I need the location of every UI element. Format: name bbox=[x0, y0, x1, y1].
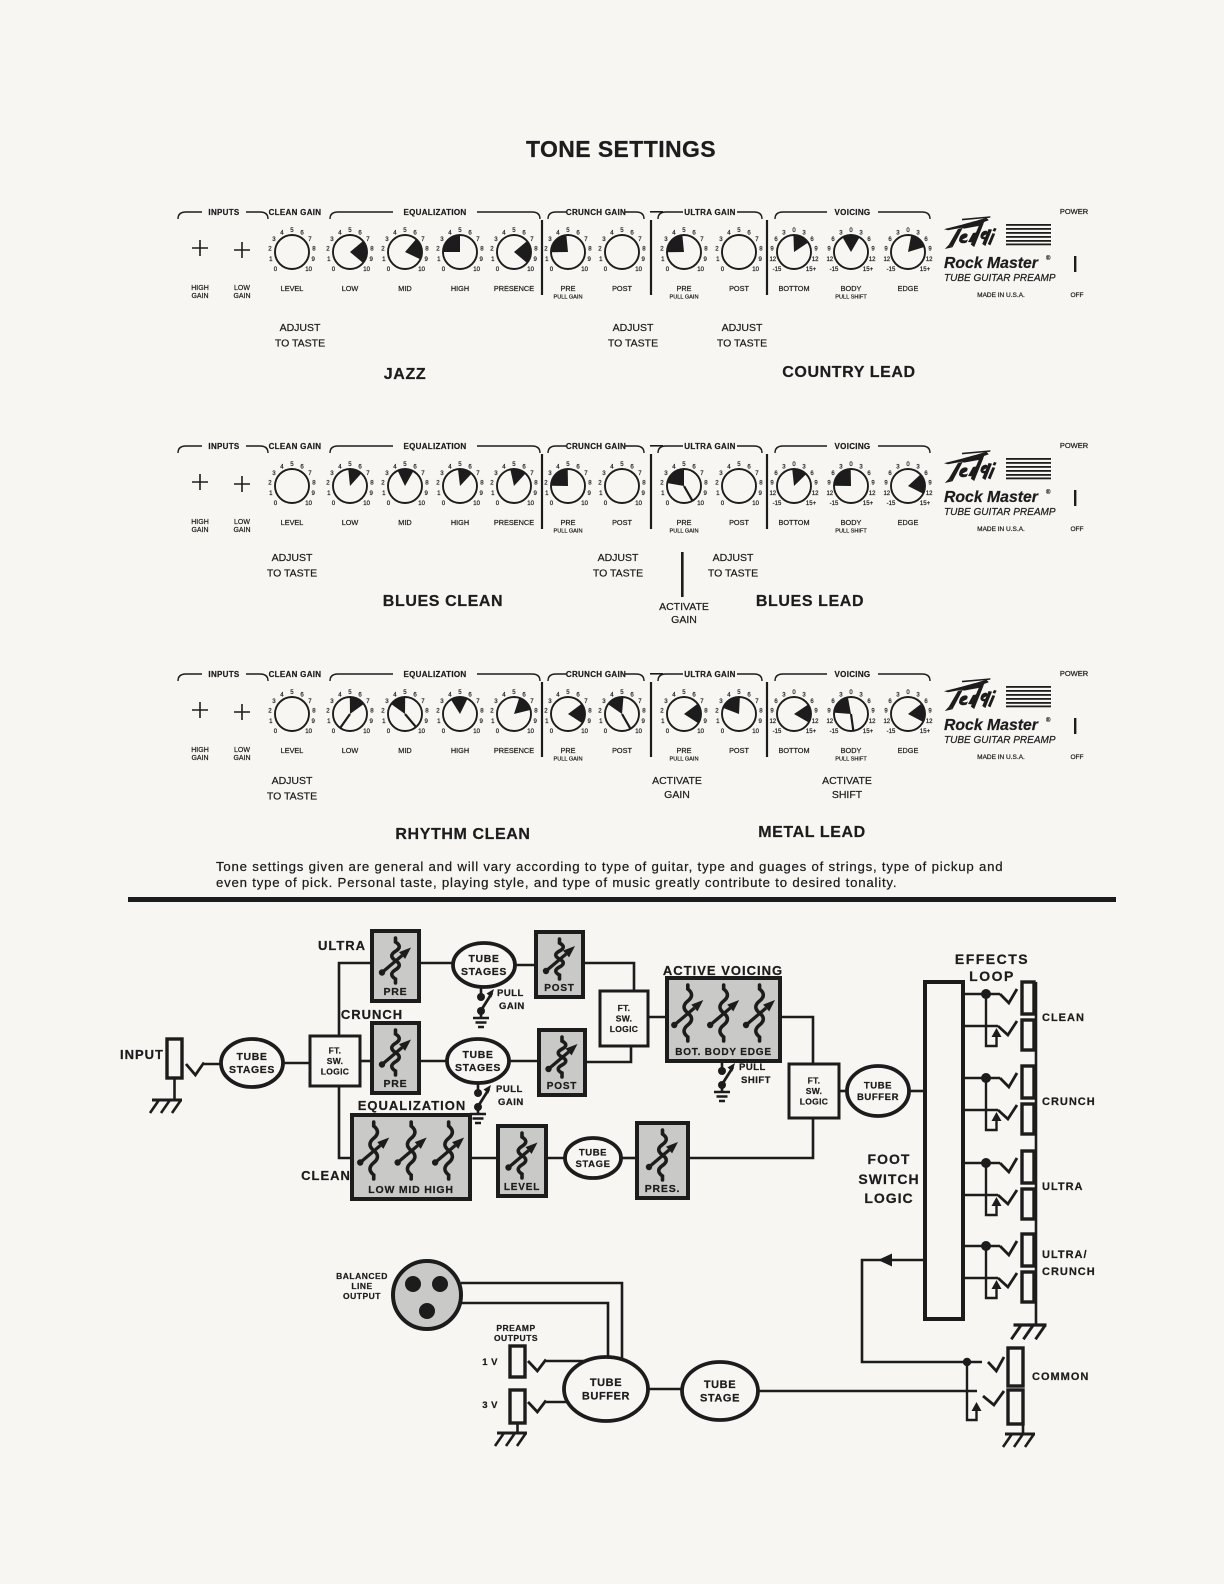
svg-text:PULL SHIFT: PULL SHIFT bbox=[835, 529, 867, 535]
section label CLEAN GAIN (BLUES CLEAN / BLUES LEAD) bbox=[269, 442, 322, 451]
wire ft sw logic 2 to tube buffer bbox=[839, 1090, 848, 1093]
knob BODY (RHYTHM CLEAN / METAL LEAD) bbox=[826, 690, 876, 735]
svg-text:4: 4 bbox=[393, 229, 397, 236]
svg-text:12: 12 bbox=[769, 491, 776, 497]
svg-text:CRUNCH GAIN: CRUNCH GAIN bbox=[566, 208, 626, 217]
svg-text:BOTTOM: BOTTOM bbox=[778, 746, 809, 755]
svg-text:PRE: PRE bbox=[384, 986, 408, 998]
note ADJUST TO TASTE (crunch, JAZZ) bbox=[608, 322, 658, 350]
knob LEVEL (JAZZ / COUNTRY LEAD) bbox=[268, 227, 316, 273]
svg-text:STAGE: STAGE bbox=[700, 1393, 740, 1405]
label MID (RHYTHM CLEAN / METAL LEAD) bbox=[398, 746, 411, 755]
svg-text:12: 12 bbox=[826, 719, 833, 725]
svg-text:15+: 15+ bbox=[920, 267, 931, 273]
input jack LOW GAIN (JAZZ / COUNTRY LEAD) bbox=[233, 242, 250, 300]
label EDGE (JAZZ / COUNTRY LEAD) bbox=[898, 284, 919, 293]
svg-text:ULTRA: ULTRA bbox=[1042, 1181, 1083, 1193]
wire to crunch branch bbox=[360, 1060, 372, 1063]
svg-text:LEVEL: LEVEL bbox=[504, 1182, 540, 1193]
svg-text:9: 9 bbox=[312, 718, 316, 725]
svg-text:POST: POST bbox=[547, 1081, 577, 1092]
svg-text:®: ® bbox=[1046, 255, 1051, 262]
svg-text:9: 9 bbox=[588, 490, 592, 497]
svg-text:4: 4 bbox=[338, 463, 342, 470]
svg-text:ULTRA GAIN: ULTRA GAIN bbox=[684, 442, 735, 451]
svg-text:CLEAN: CLEAN bbox=[301, 1168, 351, 1183]
svg-text:EFFECTS: EFFECTS bbox=[955, 951, 1029, 967]
svg-text:LOGIC: LOGIC bbox=[321, 1067, 349, 1077]
svg-text:PRESENCE: PRESENCE bbox=[494, 518, 534, 527]
preamp outputs ground bbox=[495, 1423, 531, 1446]
svg-text:4: 4 bbox=[610, 229, 614, 236]
knob POST (JAZZ / COUNTRY LEAD) bbox=[598, 227, 646, 273]
common return wire and arrow bbox=[967, 1362, 1004, 1420]
svg-text:PULL GAIN: PULL GAIN bbox=[553, 529, 582, 535]
input jack HIGH GAIN (BLUES CLEAN / BLUES LEAD) bbox=[191, 474, 209, 534]
label POST (JAZZ / COUNTRY LEAD) bbox=[612, 284, 632, 293]
svg-text:PRE: PRE bbox=[560, 746, 575, 755]
label ULTRA/ CRUNCH bbox=[1042, 1249, 1096, 1278]
note ACTIVATE GAIN (METAL) bbox=[652, 775, 702, 801]
svg-text:9: 9 bbox=[588, 718, 592, 725]
knob BOTTOM (RHYTHM CLEAN / METAL LEAD) bbox=[769, 690, 819, 735]
knob PRE (BLUES CLEAN / BLUES LEAD) bbox=[660, 461, 708, 507]
block FT. SW. LOGIC (output) bbox=[789, 1064, 839, 1118]
svg-text:15+: 15+ bbox=[863, 501, 874, 507]
label BODY (JAZZ / COUNTRY LEAD) bbox=[835, 284, 867, 301]
svg-text:PULL GAIN: PULL GAIN bbox=[669, 529, 698, 535]
preamp front panel BLUES CLEAN / BLUES LEAD bbox=[178, 441, 1089, 626]
potentiometer block ACTIVE VOICING (BOT. BODY EDGE) bbox=[667, 978, 780, 1061]
knob LEVEL (BLUES CLEAN / BLUES LEAD) bbox=[268, 461, 316, 507]
svg-text:RHYTHM CLEAN: RHYTHM CLEAN bbox=[395, 826, 530, 843]
svg-text:0: 0 bbox=[604, 728, 608, 735]
svg-text:BLUES LEAD: BLUES LEAD bbox=[756, 593, 864, 610]
return wire CRUNCH bbox=[963, 1078, 1017, 1130]
section bracket ULTRA GAIN (JAZZ / COUNTRY LEAD) bbox=[658, 208, 762, 219]
svg-text:0: 0 bbox=[332, 500, 336, 507]
svg-text:LOGIC: LOGIC bbox=[864, 1190, 913, 1206]
svg-text:0: 0 bbox=[442, 500, 446, 507]
panel separator lines (JAZZ / COUNTRY LEAD) bbox=[542, 220, 767, 295]
svg-text:12: 12 bbox=[926, 257, 933, 263]
section bracket ULTRA GAIN (RHYTHM CLEAN / METAL LEAD) bbox=[658, 670, 762, 681]
wire presence to ft sw logic 2 bbox=[688, 1118, 813, 1158]
svg-text:GAIN: GAIN bbox=[191, 755, 208, 762]
svg-text:MADE IN U.S.A.: MADE IN U.S.A. bbox=[977, 526, 1025, 533]
panel separator lines (BLUES CLEAN / BLUES LEAD) bbox=[542, 454, 767, 529]
svg-text:4: 4 bbox=[502, 691, 506, 698]
svg-text:ADJUST: ADJUST bbox=[598, 552, 639, 564]
knob PRESENCE (JAZZ / COUNTRY LEAD) bbox=[490, 227, 538, 273]
svg-text:TONE SETTINGS: TONE SETTINGS bbox=[526, 136, 716, 162]
svg-text:-15: -15 bbox=[830, 729, 839, 735]
preset name RHYTHM CLEAN bbox=[395, 826, 530, 843]
svg-text:CLEAN GAIN: CLEAN GAIN bbox=[269, 208, 322, 217]
svg-text:SWITCH: SWITCH bbox=[858, 1171, 919, 1187]
svg-text:MADE IN U.S.A.: MADE IN U.S.A. bbox=[977, 754, 1025, 761]
svg-text:12: 12 bbox=[826, 257, 833, 263]
svg-text:10: 10 bbox=[418, 728, 425, 735]
svg-text:0: 0 bbox=[666, 728, 670, 735]
label PRE (JAZZ / COUNTRY LEAD) bbox=[553, 284, 582, 301]
note ADJUST TO TASTE (level, JAZZ) bbox=[275, 322, 325, 350]
divider line between adjust notes (BLUES) bbox=[681, 552, 684, 597]
svg-text:TO TASTE: TO TASTE bbox=[608, 338, 658, 350]
svg-text:GAIN: GAIN bbox=[191, 293, 208, 300]
return wire CLEAN bbox=[963, 994, 1017, 1046]
label PRE (BLUES CLEAN / BLUES LEAD) bbox=[553, 518, 582, 535]
wire active voicing to ft sw logic 2 bbox=[780, 1017, 813, 1064]
effects loop return jack CLEAN bbox=[1022, 1020, 1034, 1050]
label PREAMP OUTPUTS bbox=[494, 1323, 538, 1343]
label MID (BLUES CLEAN / BLUES LEAD) bbox=[398, 518, 411, 527]
svg-text:SW.: SW. bbox=[616, 1013, 633, 1023]
label LOW (JAZZ / COUNTRY LEAD) bbox=[342, 284, 359, 293]
svg-text:-15: -15 bbox=[773, 729, 782, 735]
input jack HIGH GAIN (RHYTHM CLEAN / METAL LEAD) bbox=[191, 702, 209, 762]
svg-text:10: 10 bbox=[363, 266, 370, 273]
input jack LOW GAIN (BLUES CLEAN / BLUES LEAD) bbox=[233, 476, 250, 534]
svg-text:-15: -15 bbox=[830, 501, 839, 507]
wire tube buffer to tube stage bbox=[648, 1388, 683, 1391]
svg-text:10: 10 bbox=[305, 500, 312, 507]
note ADJUST TO TASTE (ultra, BLUES) bbox=[708, 552, 758, 580]
svg-text:EQUALIZATION: EQUALIZATION bbox=[403, 670, 466, 679]
label PRE (BLUES CLEAN / BLUES LEAD) bbox=[669, 518, 698, 535]
pull shift switch bbox=[714, 1061, 771, 1101]
svg-text:LOW: LOW bbox=[234, 747, 250, 754]
knob PRESENCE (BLUES CLEAN / BLUES LEAD) bbox=[490, 461, 538, 507]
svg-text:OUTPUT: OUTPUT bbox=[343, 1291, 381, 1301]
svg-text:METAL LEAD: METAL LEAD bbox=[758, 824, 866, 841]
svg-text:0: 0 bbox=[666, 500, 670, 507]
label EFFECTS LOOP bbox=[955, 951, 1029, 984]
svg-text:PULL: PULL bbox=[497, 988, 524, 999]
knob PRE (BLUES CLEAN / BLUES LEAD) bbox=[544, 461, 592, 507]
svg-text:0: 0 bbox=[721, 728, 725, 735]
block FT. SW. LOGIC (gain merge) bbox=[600, 991, 648, 1046]
svg-text:LEVEL: LEVEL bbox=[281, 518, 304, 527]
label ACTIVE VOICING bbox=[663, 963, 783, 978]
potentiometer block PRE (crunch gain) bbox=[372, 1023, 419, 1093]
svg-text:9: 9 bbox=[425, 256, 429, 263]
svg-text:4: 4 bbox=[502, 463, 506, 470]
svg-text:0: 0 bbox=[274, 728, 278, 735]
wire ultra pre to tube stages bbox=[419, 962, 454, 965]
wire input to tube stages bbox=[204, 1063, 222, 1066]
svg-text:12: 12 bbox=[869, 491, 876, 497]
svg-text:PULL GAIN: PULL GAIN bbox=[553, 295, 582, 301]
branch label ULTRA bbox=[318, 938, 366, 953]
svg-text:SW.: SW. bbox=[327, 1056, 344, 1066]
label LEVEL (RHYTHM CLEAN / METAL LEAD) bbox=[281, 746, 304, 755]
label BOTTOM (RHYTHM CLEAN / METAL LEAD) bbox=[778, 746, 809, 755]
branch label CRUNCH bbox=[341, 1007, 403, 1022]
knob HIGH (JAZZ / COUNTRY LEAD) bbox=[436, 227, 484, 273]
svg-text:POWER: POWER bbox=[1060, 441, 1089, 450]
3V switch contact and wire bbox=[528, 1401, 570, 1413]
svg-text:TO TASTE: TO TASTE bbox=[267, 568, 317, 580]
svg-text:15+: 15+ bbox=[920, 729, 931, 735]
svg-text:15+: 15+ bbox=[806, 729, 817, 735]
svg-text:0: 0 bbox=[274, 266, 278, 273]
svg-text:1 V: 1 V bbox=[482, 1357, 498, 1368]
svg-text:10: 10 bbox=[635, 728, 642, 735]
svg-text:ACTIVE VOICING: ACTIVE VOICING bbox=[663, 963, 783, 978]
svg-text:4: 4 bbox=[556, 691, 560, 698]
panel separator lines (RHYTHM CLEAN / METAL LEAD) bbox=[542, 682, 767, 757]
block FT. SW. LOGIC (input) bbox=[310, 1036, 360, 1086]
section bracket CRUNCH GAIN (RHYTHM CLEAN / METAL LEAD) bbox=[548, 670, 644, 681]
svg-text:-15: -15 bbox=[830, 267, 839, 273]
svg-text:PRE: PRE bbox=[676, 746, 691, 755]
svg-text:VOICING: VOICING bbox=[835, 208, 871, 217]
svg-text:12: 12 bbox=[883, 257, 890, 263]
svg-text:12: 12 bbox=[883, 719, 890, 725]
input jack bbox=[167, 1039, 182, 1078]
svg-text:BUFFER: BUFFER bbox=[857, 1092, 899, 1103]
svg-text:STAGES: STAGES bbox=[461, 966, 507, 978]
svg-text:ADJUST: ADJUST bbox=[272, 775, 313, 787]
svg-text:TUBE: TUBE bbox=[469, 953, 500, 965]
Peavey logo block (JAZZ / COUNTRY LEAD) bbox=[944, 207, 1089, 299]
label MID (JAZZ / COUNTRY LEAD) bbox=[398, 284, 411, 293]
svg-text:0: 0 bbox=[442, 266, 446, 273]
svg-text:0: 0 bbox=[496, 728, 500, 735]
svg-text:4: 4 bbox=[727, 229, 731, 236]
potentiometer block POST (ultra gain) bbox=[536, 932, 583, 997]
svg-text:CRUNCH: CRUNCH bbox=[341, 1007, 403, 1022]
svg-text:EDGE: EDGE bbox=[898, 746, 919, 755]
label EQUALIZATION bbox=[358, 1098, 467, 1113]
svg-text:POST: POST bbox=[729, 284, 749, 293]
svg-text:0: 0 bbox=[550, 500, 554, 507]
svg-text:10: 10 bbox=[697, 728, 704, 735]
svg-text:ADJUST: ADJUST bbox=[713, 552, 754, 564]
label POST (RHYTHM CLEAN / METAL LEAD) bbox=[612, 746, 632, 755]
svg-text:POWER: POWER bbox=[1060, 669, 1089, 678]
svg-text:BOTTOM: BOTTOM bbox=[778, 284, 809, 293]
svg-text:9: 9 bbox=[370, 718, 374, 725]
pull gain switch (crunch) bbox=[470, 1083, 524, 1123]
wire tube stages to ft sw logic bbox=[283, 1062, 310, 1065]
svg-text:HIGH: HIGH bbox=[191, 519, 209, 526]
input jack HIGH GAIN (JAZZ / COUNTRY LEAD) bbox=[191, 240, 209, 300]
tube stage oval TUBE BUFFER (effects) bbox=[847, 1066, 909, 1116]
svg-text:0: 0 bbox=[332, 728, 336, 735]
section bracket VOICING (BLUES CLEAN / BLUES LEAD) bbox=[775, 442, 930, 453]
knob EDGE (BLUES CLEAN / BLUES LEAD) bbox=[883, 462, 933, 507]
svg-text:3 V: 3 V bbox=[482, 1400, 498, 1411]
label LEVEL (JAZZ / COUNTRY LEAD) bbox=[281, 284, 304, 293]
svg-text:10: 10 bbox=[635, 500, 642, 507]
svg-text:4: 4 bbox=[280, 691, 284, 698]
svg-text:ACTIVATE: ACTIVATE bbox=[652, 775, 702, 787]
svg-text:10: 10 bbox=[635, 266, 642, 273]
svg-text:INPUTS: INPUTS bbox=[208, 442, 239, 451]
svg-text:PREAMP: PREAMP bbox=[496, 1323, 535, 1333]
svg-text:INPUTS: INPUTS bbox=[208, 670, 239, 679]
pull gain switch (ultra) bbox=[473, 987, 525, 1027]
balanced line output XLR connector bbox=[393, 1261, 461, 1329]
svg-text:10: 10 bbox=[305, 728, 312, 735]
section label CLEAN GAIN (JAZZ / COUNTRY LEAD) bbox=[269, 208, 322, 217]
svg-text:15+: 15+ bbox=[863, 729, 874, 735]
effects loop return jack ULTRA bbox=[1022, 1189, 1034, 1219]
svg-text:FOOT: FOOT bbox=[868, 1151, 911, 1167]
svg-text:CLEAN GAIN: CLEAN GAIN bbox=[269, 442, 322, 451]
svg-text:VOICING: VOICING bbox=[835, 670, 871, 679]
svg-text:PRE: PRE bbox=[560, 518, 575, 527]
svg-text:SHIFT: SHIFT bbox=[832, 789, 863, 801]
knob LOW (RHYTHM CLEAN / METAL LEAD) bbox=[326, 689, 374, 735]
svg-text:4: 4 bbox=[338, 229, 342, 236]
svg-text:PULL SHIFT: PULL SHIFT bbox=[835, 295, 867, 301]
svg-text:4: 4 bbox=[610, 463, 614, 470]
svg-text:0: 0 bbox=[550, 266, 554, 273]
svg-text:9: 9 bbox=[312, 490, 316, 497]
dash between sections (RHYTHM CLEAN / METAL LEAD) bbox=[650, 673, 663, 675]
svg-text:TUBE: TUBE bbox=[579, 1147, 607, 1158]
label BOTTOM (BLUES CLEAN / BLUES LEAD) bbox=[778, 518, 809, 527]
svg-text:HIGH: HIGH bbox=[191, 747, 209, 754]
svg-text:TUBE: TUBE bbox=[237, 1051, 268, 1063]
svg-text:GAIN: GAIN bbox=[233, 755, 250, 762]
svg-text:®: ® bbox=[1046, 717, 1051, 724]
svg-text:LOGIC: LOGIC bbox=[610, 1024, 638, 1034]
wire level to tube stage bbox=[546, 1157, 566, 1160]
svg-text:9: 9 bbox=[759, 718, 763, 725]
svg-text:4: 4 bbox=[727, 463, 731, 470]
potentiometer block PRES. (presence) bbox=[637, 1123, 688, 1198]
svg-text:PRE: PRE bbox=[560, 284, 575, 293]
svg-text:12: 12 bbox=[769, 257, 776, 263]
svg-text:0: 0 bbox=[550, 728, 554, 735]
knob PRE (RHYTHM CLEAN / METAL LEAD) bbox=[660, 689, 708, 735]
svg-text:ULTRA: ULTRA bbox=[318, 938, 366, 953]
effects loop return jack CRUNCH bbox=[1022, 1104, 1034, 1134]
svg-text:9: 9 bbox=[642, 718, 646, 725]
svg-text:ULTRA GAIN: ULTRA GAIN bbox=[684, 208, 735, 217]
label PRESENCE (BLUES CLEAN / BLUES LEAD) bbox=[494, 518, 534, 527]
knob LEVEL (RHYTHM CLEAN / METAL LEAD) bbox=[268, 689, 316, 735]
svg-text:ADJUST: ADJUST bbox=[613, 322, 654, 334]
svg-text:0: 0 bbox=[666, 266, 670, 273]
svg-text:GAIN: GAIN bbox=[499, 1001, 525, 1012]
wire tube stage to common return bbox=[758, 1390, 977, 1393]
tube stage oval TUBE STAGE (clean) bbox=[565, 1138, 621, 1178]
svg-text:INPUT: INPUT bbox=[120, 1047, 164, 1062]
svg-text:4: 4 bbox=[280, 229, 284, 236]
section bracket CRUNCH GAIN (BLUES CLEAN / BLUES LEAD) bbox=[548, 442, 644, 453]
knob LOW (BLUES CLEAN / BLUES LEAD) bbox=[326, 461, 374, 507]
svg-text:10: 10 bbox=[305, 266, 312, 273]
svg-text:9: 9 bbox=[480, 718, 484, 725]
svg-text:EDGE: EDGE bbox=[898, 284, 919, 293]
svg-text:TUBE GUITAR PREAMP: TUBE GUITAR PREAMP bbox=[944, 273, 1056, 284]
wire to clean branch bbox=[339, 1086, 352, 1158]
svg-text:FT.: FT. bbox=[808, 1075, 821, 1085]
svg-text:SHIFT: SHIFT bbox=[741, 1075, 771, 1086]
knob POST (BLUES CLEAN / BLUES LEAD) bbox=[598, 461, 646, 507]
label PRE (RHYTHM CLEAN / METAL LEAD) bbox=[669, 746, 698, 763]
svg-text:LOW: LOW bbox=[342, 284, 359, 293]
svg-text:EDGE: EDGE bbox=[898, 518, 919, 527]
dash between sections (BLUES CLEAN / BLUES LEAD) bbox=[650, 445, 663, 447]
svg-text:OUTPUTS: OUTPUTS bbox=[494, 1333, 538, 1343]
svg-text:9: 9 bbox=[425, 718, 429, 725]
svg-text:BODY: BODY bbox=[841, 746, 862, 755]
svg-text:12: 12 bbox=[826, 491, 833, 497]
svg-text:STAGE: STAGE bbox=[575, 1159, 610, 1170]
effects loop send jack ULTRA/CRUNCH bbox=[1022, 1234, 1034, 1266]
svg-text:LOW MID HIGH: LOW MID HIGH bbox=[368, 1184, 453, 1196]
knob PRE (JAZZ / COUNTRY LEAD) bbox=[544, 227, 592, 273]
svg-text:ACTIVATE: ACTIVATE bbox=[659, 601, 709, 613]
note ACTIVATE SHIFT (METAL) bbox=[822, 775, 872, 801]
svg-text:9: 9 bbox=[588, 256, 592, 263]
svg-text:9: 9 bbox=[704, 256, 708, 263]
knob EDGE (RHYTHM CLEAN / METAL LEAD) bbox=[883, 690, 933, 735]
label LEVEL (BLUES CLEAN / BLUES LEAD) bbox=[281, 518, 304, 527]
svg-text:15+: 15+ bbox=[806, 267, 817, 273]
knob POST (BLUES CLEAN / BLUES LEAD) bbox=[715, 461, 763, 507]
svg-text:-15: -15 bbox=[887, 501, 896, 507]
svg-text:PRE: PRE bbox=[676, 284, 691, 293]
svg-text:10: 10 bbox=[527, 266, 534, 273]
svg-text:10: 10 bbox=[418, 500, 425, 507]
svg-text:TO TASTE: TO TASTE bbox=[717, 338, 767, 350]
label COMMON bbox=[1032, 1371, 1089, 1383]
knob POST (RHYTHM CLEAN / METAL LEAD) bbox=[598, 689, 646, 735]
svg-text:POST: POST bbox=[729, 746, 749, 755]
label PRE (RHYTHM CLEAN / METAL LEAD) bbox=[553, 746, 582, 763]
svg-text:-15: -15 bbox=[887, 267, 896, 273]
svg-text:PRESENCE: PRESENCE bbox=[494, 746, 534, 755]
section bracket INPUTS (JAZZ / COUNTRY LEAD) bbox=[178, 208, 268, 219]
label HIGH (BLUES CLEAN / BLUES LEAD) bbox=[451, 518, 469, 527]
svg-text:12: 12 bbox=[769, 719, 776, 725]
knob HIGH (BLUES CLEAN / BLUES LEAD) bbox=[436, 461, 484, 507]
svg-text:4: 4 bbox=[448, 463, 452, 470]
common send jack bbox=[1008, 1348, 1023, 1386]
svg-text:4: 4 bbox=[393, 463, 397, 470]
page title bbox=[526, 136, 716, 162]
svg-text:10: 10 bbox=[473, 500, 480, 507]
svg-text:0: 0 bbox=[387, 266, 391, 273]
svg-text:PRE: PRE bbox=[676, 518, 691, 527]
svg-text:4: 4 bbox=[727, 691, 731, 698]
wire ultra post to ft sw logic bbox=[583, 963, 634, 991]
svg-text:TO TASTE: TO TASTE bbox=[708, 568, 758, 580]
wire foot switch logic to common send bbox=[862, 1254, 982, 1367]
svg-text:BODY: BODY bbox=[841, 518, 862, 527]
svg-text:10: 10 bbox=[752, 266, 759, 273]
label HIGH (RHYTHM CLEAN / METAL LEAD) bbox=[451, 746, 469, 755]
wire crunch tube stages to post bbox=[509, 1060, 539, 1063]
svg-text:ULTRA GAIN: ULTRA GAIN bbox=[684, 670, 735, 679]
label LOW (RHYTHM CLEAN / METAL LEAD) bbox=[342, 746, 359, 755]
input jack LOW GAIN (RHYTHM CLEAN / METAL LEAD) bbox=[233, 704, 250, 762]
label BOTTOM (JAZZ / COUNTRY LEAD) bbox=[778, 284, 809, 293]
svg-text:EQUALIZATION: EQUALIZATION bbox=[403, 442, 466, 451]
wire eq to level bbox=[470, 1157, 498, 1160]
dash between sections (JAZZ / COUNTRY LEAD) bbox=[650, 211, 663, 213]
label BODY (RHYTHM CLEAN / METAL LEAD) bbox=[835, 746, 867, 763]
svg-text:HIGH: HIGH bbox=[451, 284, 469, 293]
svg-text:PULL SHIFT: PULL SHIFT bbox=[835, 757, 867, 763]
